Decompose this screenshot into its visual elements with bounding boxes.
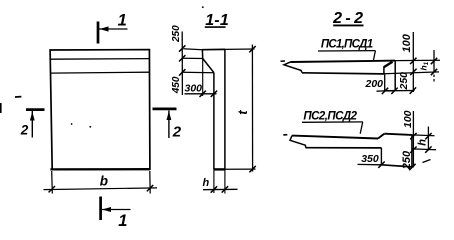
svg-text:1: 1 xyxy=(118,212,127,230)
svg-text:250: 250 xyxy=(398,72,410,91)
svg-text:2-2: 2-2 xyxy=(332,10,366,27)
svg-text:250: 250 xyxy=(401,150,413,170)
svg-text:200: 200 xyxy=(365,78,384,90)
svg-text:100: 100 xyxy=(401,33,413,52)
svg-text:100: 100 xyxy=(402,110,414,128)
svg-text:ПС2,ПСД2: ПС2,ПСД2 xyxy=(303,111,357,123)
svg-text:h1: h1 xyxy=(419,61,431,70)
svg-text:b: b xyxy=(100,174,108,189)
svg-text:350: 350 xyxy=(361,153,379,165)
svg-text:1: 1 xyxy=(118,12,127,30)
svg-text:1-1: 1-1 xyxy=(205,12,229,29)
svg-text:2: 2 xyxy=(172,123,182,140)
svg-text:2: 2 xyxy=(20,123,29,138)
svg-text:250: 250 xyxy=(171,25,182,43)
svg-text:t: t xyxy=(235,110,250,115)
svg-text:450: 450 xyxy=(171,76,182,94)
svg-text:300: 300 xyxy=(185,83,203,95)
svg-text:h: h xyxy=(203,177,210,189)
svg-text:h: h xyxy=(416,139,428,146)
svg-text:ПС1,ПСД1: ПС1,ПСД1 xyxy=(321,39,373,51)
